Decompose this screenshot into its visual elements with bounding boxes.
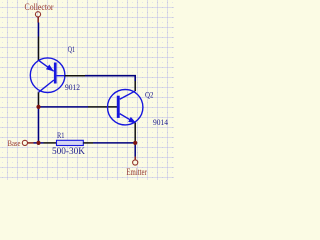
junction node Q2 emitter / R1	[133, 141, 137, 145]
wire Base port to junction	[34, 142, 44, 144]
value 9014	[153, 118, 168, 127]
pin Q2 collector	[134, 81, 136, 91]
svg-text:R1: R1	[57, 131, 65, 140]
transistor Q1 (PNP 9012)	[30, 58, 65, 93]
port Collector terminal circle	[35, 12, 40, 23]
pin Q1 base	[65, 75, 85, 77]
svg-text:9012: 9012	[65, 83, 80, 92]
wire junction to Q2 base	[39, 106, 89, 108]
junction node Q1 collector / Q2 base	[36, 105, 40, 109]
label R1 designator	[57, 131, 65, 140]
pin Q2 base	[88, 106, 117, 108]
pin Q1 collector	[38, 92, 40, 107]
pin R1 left	[44, 142, 57, 144]
label Q2 designator	[145, 90, 154, 99]
pin Q2 emitter	[134, 123, 136, 143]
svg-text:Base: Base	[8, 139, 21, 148]
wire R1 to Q2 emitter junction	[93, 142, 135, 144]
wire Collector to Q1 emitter	[38, 23, 40, 37]
svg-text:Q2: Q2	[145, 90, 154, 99]
pin Q1 emitter	[38, 37, 40, 61]
port Collector label	[25, 2, 54, 12]
svg-text:500-30K: 500-30K	[52, 146, 86, 156]
transistor Q2 (NPN 9014)	[108, 90, 143, 125]
svg-text:Emitter: Emitter	[126, 167, 147, 177]
label Q1 designator	[68, 45, 76, 54]
port Base label	[8, 139, 21, 148]
port Emitter label	[126, 167, 147, 177]
svg-text:Q1: Q1	[68, 45, 76, 54]
wire Q2 emitter junction to Emitter port	[134, 143, 136, 157]
svg-text:Collector: Collector	[25, 2, 54, 12]
value 500-30K	[52, 146, 86, 156]
port Emitter terminal circle	[133, 157, 138, 166]
value 9012	[65, 83, 80, 92]
svg-text:9014: 9014	[153, 118, 168, 127]
wire Q1 base to Q2 collector	[85, 76, 135, 81]
wire junction down to Base node	[38, 107, 40, 143]
pin R1 right	[83, 142, 93, 144]
resistor R1	[57, 140, 84, 145]
junction node Base	[36, 141, 40, 145]
port Base terminal circle	[22, 140, 33, 145]
